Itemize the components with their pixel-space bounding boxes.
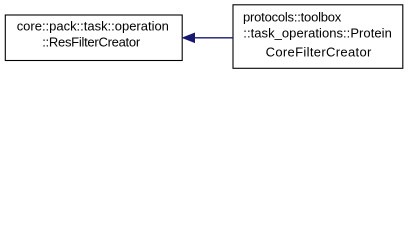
- svg-text:::task_operations::Protein: ::task_operations::Protein: [243, 25, 391, 40]
- inheritance arrow shaft: [194, 37, 234, 39]
- svg-text:protocols::toolbox: protocols::toolbox: [243, 9, 342, 24]
- node box: core::pack::task::operation::ResFilterCreator: [5, 15, 182, 61]
- svg-text:CoreFilterCreator: CoreFilterCreator: [266, 45, 372, 60]
- svg-text:::ResFilterCreator: ::ResFilterCreator: [42, 34, 141, 49]
- inheritance arrow head: [183, 33, 195, 42]
- svg-text:core::pack::task::operation: core::pack::task::operation: [17, 18, 169, 33]
- node box: protocols::toolbox::task_operations::ProteinCoreFilterCreator: [233, 5, 403, 69]
